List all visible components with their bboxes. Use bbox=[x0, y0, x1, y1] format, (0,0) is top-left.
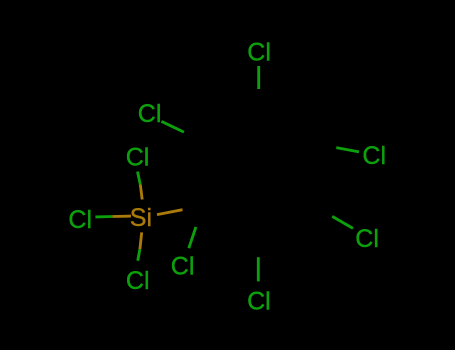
bond C3-Cl (on Si-bearing carbon): chlorine half (green) bbox=[189, 227, 196, 248]
wire: ring bond C6-C1 (carbon, black/invisible) bbox=[259, 112, 314, 143]
svg-text:Cl: Cl bbox=[126, 267, 150, 295]
bond C1-Cl top: carbon half (black) bbox=[257, 89, 260, 112]
bond Si-Cl top: chlorine half (green) bbox=[138, 172, 141, 185]
svg-text:Cl: Cl bbox=[126, 144, 150, 172]
svg-text:Cl: Cl bbox=[247, 287, 271, 315]
bond C2-Cl upper-left: carbon half (black) bbox=[184, 132, 207, 143]
bond C4-Cl bottom: carbon half (black) bbox=[257, 233, 260, 257]
bond C3-Cl (on Si-bearing carbon): carbon half (black) bbox=[196, 206, 205, 227]
wire: ring bond C4-C5 (carbon, black/invisible) bbox=[258, 205, 312, 233]
wire: ring bond C1-C2 (carbon, black/invisible) bbox=[206, 112, 258, 143]
svg-text:Cl: Cl bbox=[247, 39, 271, 67]
bond C4-Cl bottom: chlorine half (green) bbox=[257, 257, 260, 281]
bond C2-Cl upper-left: chlorine half (green) bbox=[161, 121, 184, 132]
wire: ring bond C5-C6 (carbon, black/invisible) bbox=[312, 143, 313, 205]
bond Si-Cl bottom: silicon half (orange) bbox=[140, 232, 142, 249]
svg-text:Cl: Cl bbox=[171, 252, 195, 280]
bond Si-Cl bottom: chlorine half (green) bbox=[138, 249, 140, 261]
bond C5-Cl lower-right: chlorine half (green) bbox=[332, 216, 353, 228]
bond Si-Cl left: silicon half (orange) bbox=[112, 215, 131, 218]
bond C5-Cl lower-right: carbon half (black) bbox=[312, 205, 332, 217]
bond Si-Cl top: silicon half (orange) bbox=[140, 185, 142, 200]
svg-text:Cl: Cl bbox=[138, 100, 162, 128]
bond C6-Cl upper-right: chlorine half (green) bbox=[336, 148, 359, 152]
svg-text:Cl: Cl bbox=[362, 142, 386, 170]
svg-text:Si: Si bbox=[130, 204, 152, 232]
bond C1-Cl top: chlorine half (green) bbox=[257, 66, 260, 89]
bond Si-C3: silicon half (orange) bbox=[157, 210, 183, 215]
bond C6-Cl upper-right: carbon half (black) bbox=[314, 143, 337, 147]
bond Si-Cl left: chlorine half (green) bbox=[95, 215, 112, 218]
svg-text:Cl: Cl bbox=[68, 206, 92, 234]
wire: ring bond C3-C4 (carbon, black/invisible) bbox=[205, 206, 259, 233]
wire: ring bond C2-C3 (carbon, black/invisible) bbox=[205, 143, 207, 206]
bond Si-C3: carbon half (black) bbox=[183, 206, 205, 210]
svg-text:Cl: Cl bbox=[355, 225, 379, 253]
